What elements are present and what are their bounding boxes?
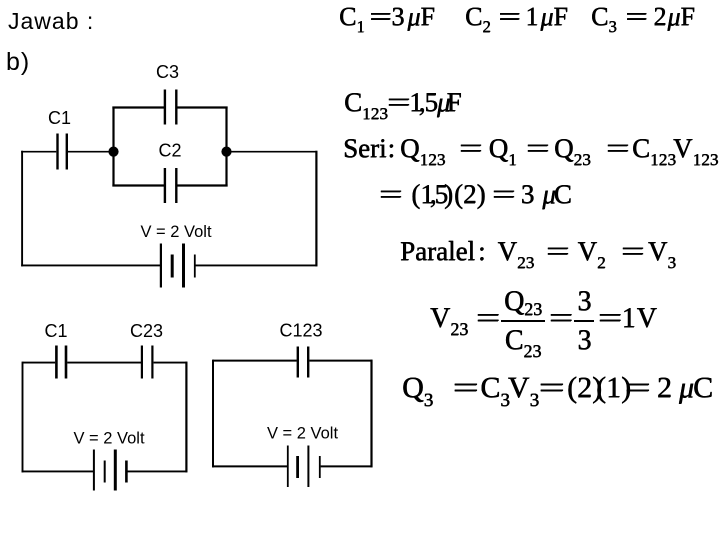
wire: bottom-left segment (circuit 2)	[22, 470, 94, 472]
capacitor C23 (plates)	[142, 346, 153, 379]
equation line 4	[383, 181, 572, 208]
equation line 6: V23 = Q23/C23 = 3/3 = 1 V	[430, 288, 657, 355]
wire: outer right vertical	[315, 151, 317, 267]
capacitor C3 (plates)	[165, 90, 176, 125]
svg-text:C123: C123	[279, 321, 322, 341]
svg-text:V = 2 Volt: V = 2 Volt	[73, 430, 145, 448]
wire: inner loop left vertical	[112, 107, 114, 187]
wire: mid-left segment from outer loop to C1	[21, 151, 56, 153]
svg-text:C1: C1	[48, 108, 71, 128]
svg-text:C1: C1	[44, 321, 67, 341]
capacitor C1 (plates)	[58, 134, 67, 170]
title text "Jawab :"	[8, 8, 94, 35]
battery V1 (4 plates)	[160, 244, 162, 288]
equation line 5: Paralel	[400, 238, 676, 265]
capacitor C2 (plates)	[165, 168, 176, 203]
wire: bottom-right segment (circuit 2)	[127, 470, 187, 472]
wire: bottom-right segment (circuit 3)	[321, 465, 373, 467]
equation line 3: Seri	[343, 135, 718, 162]
wire: inner loop right vertical	[225, 107, 227, 187]
battery V3 (4 plates)	[287, 446, 289, 488]
wire: right vertical (circuit 2)	[185, 362, 187, 473]
equation line 7	[402, 373, 713, 403]
capacitor C1 (second circuit plates)	[56, 346, 66, 379]
svg-text:V = 2 Volt: V = 2 Volt	[267, 425, 339, 443]
capacitor C123 (plates)	[298, 347, 308, 378]
svg-text:V = 2 Volt: V = 2 Volt	[140, 223, 212, 241]
equation line 1: C1 = 3 uF C2 = 1 uF C3 = 2 uF	[339, 4, 435, 30]
wire: inner loop top-left segment	[112, 106, 164, 108]
wire: top-middle segment	[67, 362, 141, 364]
wire: bottom-left segment (circuit 3)	[212, 465, 287, 467]
svg-text:C2: C2	[158, 141, 181, 161]
wire: mid-right segment node B to right vertical	[227, 151, 318, 153]
wire: inner loop bottom-right segment	[177, 184, 227, 186]
wire: left vertical (circuit 3)	[212, 360, 214, 468]
wire: top-right segment (circuit 3)	[309, 360, 372, 362]
wire: top-right segment	[154, 362, 188, 364]
battery V2 (4 plates)	[93, 450, 95, 491]
node A (left junction dot)	[108, 147, 118, 157]
wire: top-left segment	[23, 362, 56, 364]
wire: inner loop bottom-left segment	[112, 184, 164, 186]
wire: outer bottom-left segment	[21, 264, 161, 266]
wire: outer left vertical	[21, 151, 23, 267]
svg-text:C23: C23	[130, 321, 163, 341]
wire: outer bottom-right segment	[195, 264, 317, 266]
equation line 2: C123 = 1,5 uF	[344, 89, 462, 116]
wire: C1 to node A	[68, 151, 114, 153]
node B (right junction dot)	[221, 147, 231, 157]
wire: left vertical (circuit 2)	[22, 362, 24, 473]
svg-text:C3: C3	[156, 62, 179, 82]
wire: right vertical (circuit 3)	[370, 360, 372, 468]
wire: inner loop top-right segment	[177, 106, 227, 108]
wire: top-left segment (circuit 3)	[213, 360, 297, 362]
label b)	[6, 48, 30, 77]
